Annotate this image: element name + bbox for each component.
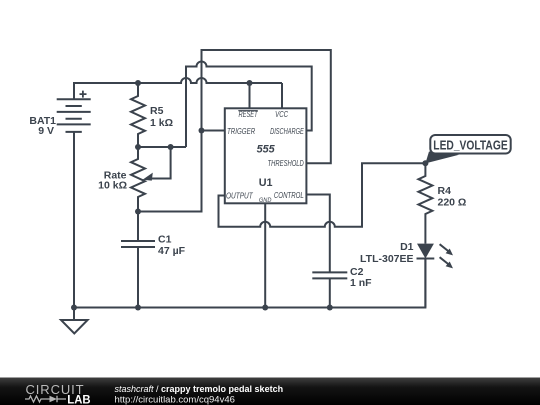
wire R5 bottom to corner [138,146,186,148]
svg-text:U1: U1 [259,177,273,189]
wire OUTPUT net with hops [219,163,426,227]
node junction GND rail [262,305,268,311]
svg-text:GND: GND [259,197,272,204]
svg-text:RESET: RESET [239,110,259,119]
wire TRIGGER-THRESHOLD net [138,50,331,212]
svg-text:LAB: LAB [67,394,90,405]
svg-text:OUTPUT: OUTPUT [226,191,254,200]
diode D1 LED [417,244,454,308]
node junction C1 top [135,209,141,215]
node junction C1 bottom [135,305,141,311]
resistor R4 [418,163,432,243]
svg-text:THRESHOLD: THRESHOLD [268,159,304,168]
op-amp U1 555 IC box [225,108,307,203]
svg-text:47 µF: 47 µF [158,245,186,257]
node junction TRIGGER [199,128,205,134]
svg-text:C1: C1 [158,234,172,246]
svg-text:CONTROL: CONTROL [274,191,304,200]
wire VCC stub [281,83,283,108]
node junction LED_VOLTAGE [422,160,428,166]
svg-text:D1: D1 [400,241,414,253]
footer logo CIRCUIT LAB [25,382,91,405]
node junction ground [71,305,77,311]
resistor R5 [131,83,145,147]
svg-text:220 Ω: 220 Ω [438,197,467,209]
svg-text:555: 555 [257,143,276,155]
svg-text:10 kΩ: 10 kΩ [98,180,127,192]
svg-text:R4: R4 [438,185,452,197]
svg-text:http://circuitlab.com/cq94v46: http://circuitlab.com/cq94v46 [115,395,235,405]
svg-text:LTL-307EE: LTL-307EE [360,253,413,265]
wire potentiometer wiper [151,147,171,179]
wire battery positive to top rail with hops [74,78,282,99]
svg-text:VCC: VCC [275,110,288,119]
wire R5 junction to DISCHARGE net [186,62,312,148]
svg-text:LED_VOLTAGE: LED_VOLTAGE [433,138,508,153]
capacitor C1 [121,212,155,308]
node junction RESET rail [247,80,253,86]
capacitor C2 [312,272,347,307]
node LED_VOLTAGE flag [425,135,510,163]
wire CONTROL to C2 [306,195,329,273]
svg-text:1 kΩ: 1 kΩ [150,117,173,129]
battery BAT1 [57,91,91,132]
node junction C2 bottom [327,305,333,311]
label BAT1 value [29,105,508,289]
label 555 pin names [226,110,304,204]
svg-text:R5: R5 [150,105,164,117]
wire battery negative to ground [73,132,75,320]
svg-text:TRIGGER: TRIGGER [227,127,255,136]
potentiometer Rate [131,147,145,212]
wire TRIGGER stub [202,130,225,132]
node junction R5 top [135,80,141,86]
wire GND pin to rail [264,203,266,307]
wire RESET stub [249,83,251,108]
node junction R5 bottom [135,144,141,150]
node junction wiper tap [168,144,174,150]
svg-text:1 nF: 1 nF [350,277,372,289]
svg-text:stashcraft / crappy tremolo pe: stashcraft / crappy tremolo pedal sketch [115,384,284,394]
svg-text:9 V: 9 V [38,125,54,137]
wire bottom rail [74,259,425,308]
svg-text:DISCHARGE: DISCHARGE [270,127,304,136]
ground [61,320,88,334]
